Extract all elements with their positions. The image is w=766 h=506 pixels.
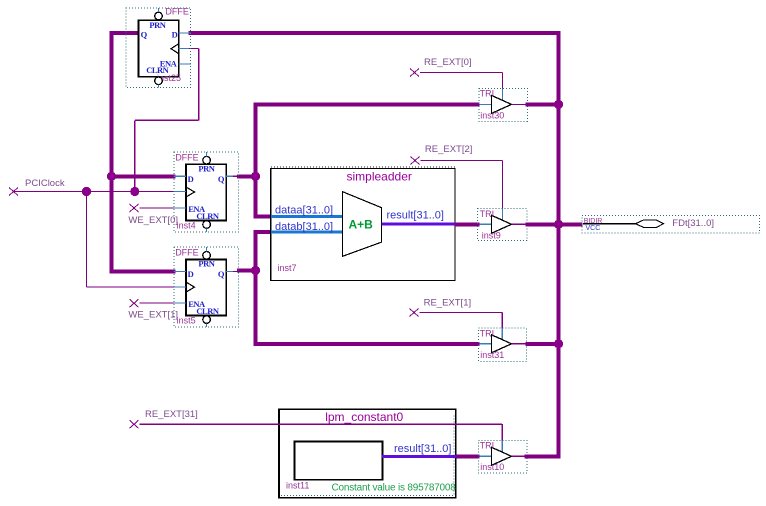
svg-text:inst31: inst31	[480, 350, 504, 360]
svg-text:inst4: inst4	[177, 221, 196, 231]
node junction PCIClock 2	[130, 187, 139, 196]
input pin RE_EXT[1]	[410, 297, 472, 316]
svg-text:inst10: inst10	[480, 462, 504, 472]
wire inst30 output to right bus	[526, 103, 557, 107]
wire left vertical bus inst25.Q net	[110, 31, 176, 273]
svg-text:D: D	[172, 30, 178, 40]
wire RE_EXT[2] to inst9	[421, 161, 503, 220]
wire top bus from inst25 D to right bus	[189, 31, 561, 35]
svg-text:DFFE: DFFE	[165, 7, 189, 17]
node junction inst30 out	[554, 100, 563, 109]
block simpleadder inst7	[271, 167, 455, 280]
svg-text:PCIClock: PCIClock	[25, 178, 65, 189]
svg-text:Q: Q	[141, 30, 148, 40]
node junction inst4.Q	[251, 172, 260, 181]
wire result bus inside lpm_constant0	[382, 443, 457, 458]
svg-text:Q: Q	[218, 269, 225, 279]
wire inst9 output to right bus	[526, 222, 557, 226]
wire RE_EXT[31] to inst10	[140, 424, 503, 451]
svg-text:CLRN: CLRN	[196, 306, 219, 316]
flip-flop U inst4	[174, 152, 239, 232]
svg-text:D: D	[188, 269, 194, 279]
adder A+B symbol	[343, 192, 382, 257]
svg-text:PRN: PRN	[149, 20, 166, 30]
svg-text:WE_EXT[0]: WE_EXT[0]	[128, 215, 178, 226]
wire inst10 output to right bus corner	[525, 454, 561, 458]
svg-text:D: D	[188, 174, 194, 184]
svg-text:Constant value is 895787008: Constant value is 895787008	[332, 483, 457, 494]
wire PCIClock net	[14, 49, 199, 288]
svg-text:dataa[31..0]: dataa[31..0]	[275, 205, 333, 217]
input pin PCIClock	[9, 178, 65, 196]
svg-text:result[31..0]: result[31..0]	[394, 443, 451, 455]
wire bus inst4.Q to dataa and inst30	[237, 103, 480, 219]
svg-text:inst7: inst7	[278, 263, 297, 273]
svg-text:inst30: inst30	[480, 111, 504, 121]
svg-text:FDt[31..0]: FDt[31..0]	[672, 218, 714, 229]
svg-text:WE_EXT[1]: WE_EXT[1]	[128, 310, 178, 321]
input pin RE_EXT[2]	[411, 144, 473, 164]
input pin RE_EXT[0]	[410, 57, 472, 77]
svg-text:RE_EXT[0]: RE_EXT[0]	[424, 57, 472, 68]
svg-text:lpm_constant0: lpm_constant0	[325, 410, 403, 424]
input pin RE_EXT[31]	[130, 409, 198, 428]
svg-text:PRN: PRN	[198, 164, 215, 174]
wire right vertical bus FDt net	[557, 31, 561, 458]
node junction PCIClock 1	[82, 187, 91, 196]
buffer TRI inst9	[478, 209, 527, 241]
svg-text:DFFE: DFFE	[175, 152, 199, 162]
wire right bus to FDt pin	[561, 222, 583, 226]
node junction inst5.Q	[251, 266, 260, 275]
wire bus inst5.Q to datab and inst31	[237, 230, 480, 346]
block lpm_constant0 inst11	[279, 409, 456, 497]
svg-text:RE_EXT[2]: RE_EXT[2]	[425, 144, 473, 155]
wire dataa bus	[271, 205, 343, 219]
wire RE_EXT[0] to inst30	[420, 73, 503, 100]
svg-text:inst5: inst5	[177, 316, 196, 326]
wire result bus inside simpleadder	[382, 209, 456, 225]
flip-flop U inst5	[174, 247, 239, 327]
input pin WE_EXT[1]	[128, 299, 178, 320]
buffer TRI inst31	[479, 328, 527, 361]
svg-text:RE_EXT[31]: RE_EXT[31]	[145, 409, 198, 420]
svg-text:TRI: TRI	[480, 328, 495, 338]
svg-text:inst11: inst11	[286, 480, 309, 490]
svg-text:CLRN: CLRN	[196, 211, 219, 221]
svg-text:Q: Q	[218, 174, 225, 184]
svg-text:TRI: TRI	[480, 440, 495, 450]
buffer TRI inst10	[478, 440, 527, 472]
svg-text:datab[31..0]: datab[31..0]	[275, 221, 333, 233]
output pin FDt[31..0]	[582, 216, 760, 234]
svg-text:result[31..0]: result[31..0]	[387, 209, 444, 221]
node junction inst9 out	[554, 220, 563, 229]
wire inst31 output to right bus	[526, 342, 557, 346]
wire result bus to inst9	[455, 222, 480, 226]
svg-text:inst9: inst9	[482, 231, 501, 241]
svg-text:A+B: A+B	[349, 218, 374, 232]
svg-text:CLRN: CLRN	[146, 65, 169, 75]
svg-text:TRI: TRI	[480, 209, 495, 219]
svg-text:PRN: PRN	[198, 259, 215, 269]
svg-text:VCC: VCC	[586, 225, 601, 232]
svg-text:simpleadder: simpleadder	[347, 170, 412, 184]
node junction left bus to inst4.D	[107, 172, 116, 181]
buffer TRI inst30	[479, 88, 527, 121]
svg-text:TRI: TRI	[480, 89, 495, 99]
node junction inst31 out	[554, 339, 563, 348]
wire datab bus	[271, 221, 343, 233]
flip-flop U inst25	[126, 7, 191, 88]
svg-text:RE_EXT[1]: RE_EXT[1]	[424, 297, 472, 308]
svg-text:DFFE: DFFE	[175, 248, 199, 258]
input pin WE_EXT[0]	[128, 204, 178, 226]
wire RE_EXT[1] to inst31	[420, 313, 503, 340]
wire lpm result to inst10	[457, 454, 480, 458]
